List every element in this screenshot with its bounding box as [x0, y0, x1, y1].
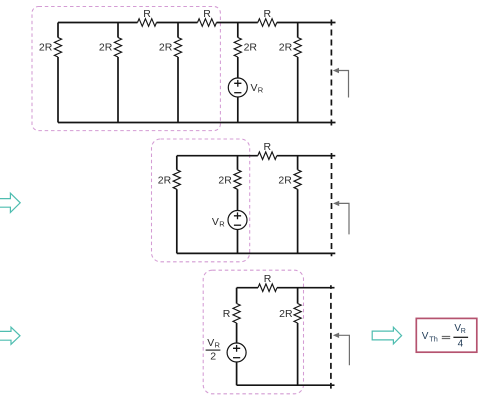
svg-text:2R: 2R [279, 42, 293, 54]
resistor 2R (vertical, branch 2, circuit3) [294, 304, 301, 324]
probe arrow circuit2 [339, 203, 349, 234]
svg-text:V: V [207, 337, 214, 349]
svg-text:R: R [264, 8, 272, 20]
svg-text:R: R [461, 328, 466, 335]
flow arrow (left, to circuit2) [0, 193, 20, 212]
wire top rail circuit1 [58, 22, 336, 24]
svg-text:R: R [264, 141, 272, 153]
wire vertical branch 1 circuit3 [236, 288, 238, 386]
resistor 2R (vertical, branch 2, circuit2) [234, 170, 241, 190]
resistor R (horizontal, circuit3) [258, 284, 277, 292]
svg-text:4: 4 [458, 338, 464, 349]
result box border [416, 318, 477, 352]
svg-text:2R: 2R [39, 42, 53, 54]
resistor 2R (vertical, branch 1, circuit2) [173, 170, 180, 190]
svg-text:R: R [219, 220, 225, 229]
dashed highlight box (stage 3 group) [203, 270, 303, 394]
terminal dashed line circuit1 [330, 20, 332, 126]
terminal dashed line circuit3 [330, 285, 332, 388]
wire vertical branch 3 circuit2 [297, 156, 299, 254]
svg-text:2R: 2R [159, 42, 173, 54]
probe arrow circuit1 [338, 71, 348, 98]
svg-text:R: R [143, 8, 151, 20]
resistor R (horizontal #1, circuit1) [138, 19, 157, 27]
wire vertical branch 2 circuit1 [117, 23, 119, 123]
resistor 2R (vertical, branch 4, circuit1) [234, 38, 241, 58]
flow arrow (right, to result) [372, 327, 401, 344]
wire vertical branch 2 circuit3 [297, 288, 299, 386]
flow arrow (left, to circuit3) [0, 327, 20, 344]
wire bottom rail circuit3 [237, 384, 335, 386]
svg-text:2R: 2R [158, 174, 172, 186]
terminal dashed line circuit2 [331, 153, 333, 256]
wire vertical branch 3 circuit1 [177, 23, 179, 123]
svg-text:2R: 2R [244, 42, 258, 54]
wire vertical branch 4 circuit1 [237, 23, 239, 123]
svg-text:R: R [203, 8, 211, 20]
resistor 2R (vertical, branch 1, circuit1) [54, 38, 61, 58]
wire vertical branch 5 circuit1 [297, 23, 299, 123]
resistor 2R (vertical, branch 2, circuit1) [114, 38, 121, 58]
svg-text:Th: Th [429, 335, 438, 344]
voltage source VR circuit2 [228, 211, 247, 230]
svg-text:R: R [215, 341, 221, 350]
probe arrow circuit3 [339, 335, 350, 365]
wire bottom rail circuit2 [177, 252, 335, 254]
svg-text:R: R [264, 273, 272, 285]
wire vertical branch 1 circuit2 [176, 156, 178, 254]
dashed highlight box (stage 2 group) [152, 139, 250, 262]
resistor R (horizontal #2, circuit1) [198, 19, 217, 27]
svg-text:2: 2 [210, 350, 216, 362]
resistor R (vertical, branch 1, circuit3) [233, 304, 240, 324]
resistor 2R (vertical, branch 5, circuit1) [294, 38, 301, 58]
wire vertical branch 1 circuit1 [57, 23, 59, 123]
wire vertical branch 2 circuit2 [237, 156, 239, 254]
svg-text:2R: 2R [99, 42, 113, 54]
resistor R (horizontal, circuit2) [258, 152, 277, 160]
svg-text:2R: 2R [278, 174, 292, 186]
wire bottom rail circuit1 [58, 122, 336, 124]
resistor 2R (vertical, branch 3, circuit1) [174, 38, 181, 58]
svg-text:R: R [223, 308, 231, 320]
wire top rail circuit2 [177, 155, 335, 157]
dashed highlight box (stage 1 group) [32, 7, 220, 131]
svg-text:R: R [258, 86, 264, 95]
svg-text:V: V [212, 216, 219, 228]
resistor 2R (vertical, branch 3, circuit2) [294, 170, 301, 190]
svg-text:V: V [251, 82, 258, 94]
svg-text:2R: 2R [279, 308, 293, 320]
svg-text:V: V [422, 331, 429, 342]
resistor R (horizontal #3, circuit1) [258, 19, 277, 27]
voltage source VR circuit1 [228, 78, 247, 97]
svg-text:2R: 2R [218, 174, 232, 186]
wire top rail circuit3 [237, 287, 335, 289]
voltage source VR/2 circuit3 [227, 343, 246, 362]
